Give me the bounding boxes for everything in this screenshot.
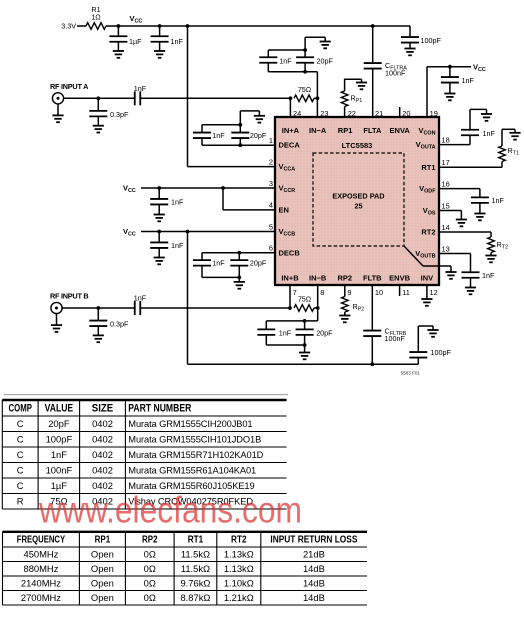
svg-text:75Ω: 75Ω xyxy=(298,295,312,304)
svg-text:14dB: 14dB xyxy=(303,577,325,588)
connector RF INPUT B xyxy=(51,302,62,313)
wire pin17 RT1 xyxy=(439,166,502,168)
resistor 75ohm input A xyxy=(294,85,314,102)
svg-text:DECB: DECB xyxy=(279,248,301,257)
svg-text:IN+B: IN+B xyxy=(281,274,299,283)
svg-text:IN+A: IN+A xyxy=(282,126,300,135)
wire EN branch xyxy=(223,188,275,210)
pin ENVB name xyxy=(389,274,410,283)
pin 3 number xyxy=(269,179,273,188)
ground INV xyxy=(421,299,432,306)
pin 11 number xyxy=(402,288,410,297)
capacitor 1uF bypass xyxy=(109,26,142,51)
svg-text:14: 14 xyxy=(442,223,450,232)
svg-text:1: 1 xyxy=(269,136,273,145)
svg-text:0.3pF: 0.3pF xyxy=(110,110,129,119)
capacitor CFLTRB 100nF xyxy=(363,285,406,364)
table2 grid xyxy=(3,532,368,606)
svg-text:1.13kΩ: 1.13kΩ xyxy=(224,563,254,574)
svg-text:1µF: 1µF xyxy=(129,37,142,46)
wire pin8 stub xyxy=(317,285,319,308)
svg-text:8: 8 xyxy=(320,288,324,297)
pin IN-A name xyxy=(309,126,327,135)
svg-text:EXPOSED PAD: EXPOSED PAD xyxy=(332,192,384,201)
pin 14 number xyxy=(442,223,450,232)
svg-text:13: 13 xyxy=(442,244,450,253)
node VCC junction 1uF xyxy=(117,24,121,28)
capacitor 20pF termination B xyxy=(296,321,334,345)
pin 16 number xyxy=(442,179,450,188)
svg-text:1Ω: 1Ω xyxy=(91,13,101,22)
pin VOUTB name xyxy=(415,249,435,260)
capacitor 1nF pin5 xyxy=(150,232,184,258)
svg-text:5583 F01: 5583 F01 xyxy=(401,371,421,376)
wire 75ohm to IN-A node xyxy=(314,97,317,99)
svg-text:RF INPUT A: RF INPUT A xyxy=(50,82,89,91)
svg-text:20pF: 20pF xyxy=(48,418,70,429)
wire DECB ground stem xyxy=(238,277,240,282)
svg-text:ENVB: ENVB xyxy=(389,274,410,283)
wire pin18 VOUTA xyxy=(439,144,470,146)
wire pin24 stub xyxy=(289,98,291,117)
resistor 75ohm input B xyxy=(294,295,314,312)
pin VOUTA name xyxy=(416,140,436,151)
pin RT2 name xyxy=(421,228,435,237)
ground exposed pad xyxy=(445,272,456,279)
svg-text:20pF: 20pF xyxy=(250,131,267,140)
capacitor 1nF VOUTB xyxy=(462,254,495,288)
svg-text:RP2: RP2 xyxy=(142,535,158,546)
pin 21 number xyxy=(375,109,383,118)
table1 grid xyxy=(2,400,286,509)
wire VCC top rail xyxy=(106,25,410,27)
capacitor 1nF pin19 xyxy=(441,67,475,94)
ground 100pF top xyxy=(404,49,415,56)
exposed pad dashed outline xyxy=(313,153,404,246)
pin 1 number xyxy=(269,136,273,145)
ground 1nF VODF xyxy=(474,214,485,221)
svg-text:0Ω: 0Ω xyxy=(144,548,156,559)
node EXPOSED PAD label xyxy=(332,192,384,211)
pin DECA name xyxy=(279,141,301,150)
node 20pF A bottom junction xyxy=(303,70,307,74)
capacitor 1nF bypass top-left xyxy=(151,26,184,51)
svg-text:0Ω: 0Ω xyxy=(144,577,156,588)
svg-text:VALUE: VALUE xyxy=(45,403,74,415)
pin DECB name xyxy=(279,248,301,257)
wire termination B bottom rail xyxy=(266,344,304,346)
svg-text:Murata GRM155R61A104KA01: Murata GRM155R61A104KA01 xyxy=(128,466,256,476)
svg-text:Open: Open xyxy=(91,577,114,588)
svg-text:9: 9 xyxy=(347,288,351,297)
connector RF INPUT A xyxy=(52,93,63,104)
svg-text:21: 21 xyxy=(375,109,383,118)
node pin19 1nF junction xyxy=(448,65,452,69)
ground 0.3pF input B xyxy=(93,335,104,342)
wire exposed pad diagonal xyxy=(404,246,423,266)
table1 data row 3 xyxy=(17,449,264,460)
ground 1nF pin3 xyxy=(154,215,165,222)
pin VCCA name xyxy=(279,162,296,173)
svg-text:2700MHz: 2700MHz xyxy=(21,592,61,603)
pin 9 number xyxy=(347,288,351,297)
svg-text:1nF: 1nF xyxy=(492,196,505,205)
svg-text:0Ω: 0Ω xyxy=(144,563,156,574)
svg-text:EN: EN xyxy=(279,205,289,214)
table1 data row 6 xyxy=(17,496,254,507)
node LTC5583 label xyxy=(342,141,373,150)
svg-text:1nF: 1nF xyxy=(51,449,67,460)
node CFLTRA junction xyxy=(371,24,375,28)
node IN-B junction xyxy=(316,306,320,310)
svg-text:2: 2 xyxy=(269,157,273,166)
svg-text:IN−B: IN−B xyxy=(309,274,327,283)
pin 17 number xyxy=(442,158,450,167)
ground 1nF top-left xyxy=(154,51,165,58)
node RF A 0.3pF junction xyxy=(96,96,100,100)
wire pin7 stub xyxy=(289,285,291,308)
ground RP1 xyxy=(356,83,367,90)
pin 7 number xyxy=(293,288,297,297)
svg-text:12: 12 xyxy=(430,288,438,297)
pin 15 number xyxy=(442,201,450,210)
ground RF INPUT A connector xyxy=(52,104,63,122)
wire RP1 to ground xyxy=(345,79,362,82)
node VCC label pin19 xyxy=(473,63,486,74)
pin 6 number xyxy=(269,244,273,253)
svg-text:0402: 0402 xyxy=(92,449,113,460)
svg-text:1.21kΩ: 1.21kΩ xyxy=(224,592,254,603)
table1 data row 2 xyxy=(17,434,261,445)
pin 13 number xyxy=(442,244,450,253)
svg-text:75Ω: 75Ω xyxy=(298,85,312,94)
table1 data row 4 xyxy=(17,465,256,476)
table1 data row 5 xyxy=(17,480,255,491)
svg-text:4: 4 xyxy=(269,201,273,210)
node RF INPUT B label xyxy=(50,292,88,301)
svg-text:IN−A: IN−A xyxy=(309,126,327,135)
svg-text:0.3pF: 0.3pF xyxy=(110,320,129,329)
table1 header row xyxy=(9,403,192,415)
svg-text:100nF: 100nF xyxy=(385,69,406,78)
wire termination A to ground xyxy=(305,37,325,50)
node VCC junction 1nF xyxy=(158,24,162,28)
capacitor 0.3pF input A xyxy=(89,98,129,125)
svg-text:11.5kΩ: 11.5kΩ xyxy=(181,563,210,574)
svg-text:14dB: 14dB xyxy=(303,592,325,603)
capacitor 1nF VODF xyxy=(471,189,505,214)
ground 1uF xyxy=(113,51,124,58)
pin IN+A name xyxy=(282,126,300,135)
svg-text:1nF: 1nF xyxy=(482,271,495,280)
node DECA 20pF top xyxy=(238,123,242,127)
capacitor 1nF DECB xyxy=(193,253,225,278)
wire IN-A node up to cap rail xyxy=(268,72,317,99)
pin 2 number xyxy=(269,157,273,166)
wire DECA to ground xyxy=(240,111,259,125)
capacitor 100pF bottom xyxy=(409,326,451,364)
node EN branch junction xyxy=(221,186,225,190)
wire 100pF bottom to ground xyxy=(418,326,433,330)
ground DECB xyxy=(234,282,245,289)
pin 18 number xyxy=(442,135,450,144)
wire pin1 DECA xyxy=(202,144,275,146)
resistor RT1 xyxy=(499,129,519,167)
pin FLTB name xyxy=(363,274,382,283)
capacitor 20pF DECA xyxy=(231,125,267,145)
wire pin19 to VCC xyxy=(427,67,471,117)
ground RT2 xyxy=(485,256,496,263)
wire bottom rail xyxy=(188,363,419,365)
node DECB 20pF bottom xyxy=(237,276,241,280)
svg-text:PART NUMBER: PART NUMBER xyxy=(128,403,191,415)
svg-text:22: 22 xyxy=(348,109,356,118)
node VCC-rail to pin2 junction xyxy=(186,24,190,28)
op-amp U1 LTC5583 body xyxy=(275,117,439,285)
svg-text:18: 18 xyxy=(442,135,450,144)
pin EN name xyxy=(279,205,289,214)
svg-text:RP2: RP2 xyxy=(338,274,353,283)
capacitor 1nF termination B xyxy=(257,321,291,345)
svg-text:100pF: 100pF xyxy=(421,36,442,45)
wire pin14 RT2 xyxy=(439,231,491,233)
pin VCCB name xyxy=(279,227,296,238)
node 20pF B bottom junction xyxy=(303,343,307,347)
wire VCC pin5 row xyxy=(141,231,275,233)
svg-text:450MHz: 450MHz xyxy=(23,548,58,559)
svg-text:8.87kΩ: 8.87kΩ xyxy=(180,592,210,603)
wire ENVB stub xyxy=(399,285,401,296)
ground termination A xyxy=(320,42,331,49)
node VCC label pin3 xyxy=(123,184,136,195)
node VCC label pin5 xyxy=(123,227,136,238)
svg-text:100pF: 100pF xyxy=(46,434,73,445)
capacitor 1nF DECA xyxy=(193,125,225,145)
pin 24 number xyxy=(293,109,301,118)
svg-text:20pF: 20pF xyxy=(250,259,267,268)
capacitor 1nF series input A xyxy=(134,84,147,105)
svg-text:FLTA: FLTA xyxy=(363,126,382,135)
svg-text:COMP: COMP xyxy=(9,403,32,415)
svg-text:R: R xyxy=(17,496,24,507)
wire termination B ground stem xyxy=(304,345,306,353)
wire pin6 DECB xyxy=(202,252,275,254)
capacitor 1nF pin3 xyxy=(150,188,184,215)
svg-text:9.76kΩ: 9.76kΩ xyxy=(180,577,210,588)
svg-text:17: 17 xyxy=(442,158,450,167)
svg-text:1nF: 1nF xyxy=(462,76,475,85)
pin IN-B name xyxy=(309,274,327,283)
ground RT1 xyxy=(509,133,520,140)
node RF B 0.3pF junction xyxy=(96,306,100,310)
svg-text:5: 5 xyxy=(269,222,273,231)
pin 23 number xyxy=(320,109,328,118)
node VCC down-rail junction xyxy=(186,230,190,234)
pin 4 number xyxy=(269,201,273,210)
svg-text:19: 19 xyxy=(430,109,438,118)
svg-text:20pF: 20pF xyxy=(317,56,334,65)
svg-text:3.3V: 3.3V xyxy=(61,22,76,31)
svg-text:0402: 0402 xyxy=(92,418,113,429)
svg-text:Open: Open xyxy=(91,548,114,559)
pin RP1 name xyxy=(338,126,353,135)
capacitor 1nF termination A xyxy=(259,50,292,72)
ground 1nF pin19 xyxy=(444,94,455,101)
svg-text:14dB: 14dB xyxy=(303,563,325,574)
wire pin13 VOUTB xyxy=(439,253,471,255)
wire pin23 stub xyxy=(316,98,318,117)
pin 5 number xyxy=(269,222,273,231)
ground RF INPUT B connector xyxy=(51,314,62,332)
node 20pF B top junction xyxy=(303,319,307,323)
svg-text:FLTB: FLTB xyxy=(363,274,382,283)
ground 0.3pF input A xyxy=(93,126,104,133)
svg-text:23: 23 xyxy=(320,109,328,118)
node IN+A junction xyxy=(289,96,293,100)
wire RF B to IN+B xyxy=(140,307,290,309)
node pin5 1nF junction xyxy=(157,230,161,234)
svg-text:DECA: DECA xyxy=(279,141,301,150)
svg-text:1nF: 1nF xyxy=(134,294,147,303)
svg-text:0402: 0402 xyxy=(92,434,113,445)
node DECA 20pF bottom xyxy=(238,143,242,147)
wire RF A to series cap xyxy=(64,97,135,99)
svg-text:RT1: RT1 xyxy=(421,163,435,172)
svg-text:SIZE: SIZE xyxy=(92,403,114,415)
svg-text:C: C xyxy=(17,418,24,429)
pin 19 number xyxy=(430,109,438,118)
ground DECA xyxy=(254,116,265,123)
ground 100pF bottom xyxy=(427,330,438,337)
svg-text:Murata GRM1555CIH200JB01: Murata GRM1555CIH200JB01 xyxy=(128,419,252,429)
pin RP2 name xyxy=(338,274,353,283)
svg-text:3: 3 xyxy=(269,179,273,188)
svg-text:1nF: 1nF xyxy=(134,84,147,93)
pin VOS name xyxy=(423,206,436,217)
pin VCCR name xyxy=(279,184,296,195)
table2 data row 2 xyxy=(23,563,324,574)
svg-text:10: 10 xyxy=(375,288,383,297)
svg-text:0402: 0402 xyxy=(92,465,113,476)
table1 gray rule xyxy=(4,394,288,396)
wire DECB bottom rail xyxy=(202,276,239,278)
resistor RT2 xyxy=(488,232,508,256)
svg-text:1nF: 1nF xyxy=(171,198,184,207)
svg-text:20: 20 xyxy=(402,109,410,118)
wire RT1 to ground xyxy=(502,129,515,133)
svg-text:RT1: RT1 xyxy=(188,535,204,546)
svg-text:Open: Open xyxy=(91,563,114,574)
node 3.3V supply label xyxy=(61,22,76,31)
capacitor 20pF DECB xyxy=(230,253,267,278)
capacitor 0.3pF input B xyxy=(89,308,129,335)
svg-text:ENVA: ENVA xyxy=(390,126,411,135)
svg-text:20pF: 20pF xyxy=(316,328,333,337)
svg-text:Murata GRM155R71H102KA01D: Murata GRM155R71H102KA01D xyxy=(128,450,263,460)
pin 10 number xyxy=(375,288,383,297)
ground termination B xyxy=(299,353,310,360)
capacitor CFLTRA 100nF xyxy=(364,26,408,117)
wire ENVA stub xyxy=(399,107,401,117)
svg-text:RT2: RT2 xyxy=(231,535,247,546)
svg-text:1nF: 1nF xyxy=(212,259,225,268)
svg-text:C: C xyxy=(17,480,24,491)
svg-text:1nF: 1nF xyxy=(171,241,184,250)
pin 20 number xyxy=(402,109,410,118)
svg-text:7: 7 xyxy=(293,288,297,297)
ground 1nF pin5 xyxy=(154,258,165,265)
node IN+B junction xyxy=(288,306,292,310)
wire pin15 VOS xyxy=(439,211,461,220)
svg-text:11: 11 xyxy=(402,288,410,297)
pin RT1 name xyxy=(421,163,435,172)
node RF INPUT A label xyxy=(50,82,89,91)
pin 12 number xyxy=(430,288,438,297)
svg-text:2140MHz: 2140MHz xyxy=(21,577,61,588)
pin VCON name xyxy=(419,126,436,137)
svg-text:100nF: 100nF xyxy=(46,465,73,476)
table1 data row 1 xyxy=(17,418,253,429)
svg-text:100pF: 100pF xyxy=(431,348,452,357)
svg-text:RT2: RT2 xyxy=(421,228,435,237)
node IN-A junction xyxy=(316,96,320,100)
wire IN-B node down to cap rail xyxy=(266,308,317,321)
ground RP2 xyxy=(339,316,350,323)
node figure label 5583 F01 xyxy=(401,371,421,376)
wire 3.3V to R1 xyxy=(77,25,86,27)
wire VOUTA cap to ground xyxy=(470,109,487,114)
node DECB 20pF top xyxy=(237,251,241,255)
svg-text:6: 6 xyxy=(269,244,273,253)
svg-text:880MHz: 880MHz xyxy=(23,563,58,574)
svg-text:11.5kΩ: 11.5kΩ xyxy=(181,548,210,559)
pin VODF name xyxy=(419,184,436,195)
resistor R1 xyxy=(86,5,106,29)
svg-text:INPUT RETURN LOSS: INPUT RETURN LOSS xyxy=(270,535,357,546)
table2 data row 3 xyxy=(21,577,325,588)
svg-text:LTC5583: LTC5583 xyxy=(342,141,373,150)
svg-text:C: C xyxy=(17,449,24,460)
pin IN+B name xyxy=(281,274,299,283)
node VCC label top-left xyxy=(130,14,143,25)
node pin3 1nF junction xyxy=(157,186,161,190)
wire exposed pad to ground xyxy=(423,266,451,272)
svg-text:C: C xyxy=(17,465,24,476)
svg-text:INV: INV xyxy=(421,274,434,283)
svg-text:25: 25 xyxy=(354,201,362,210)
wire pin16 VODF xyxy=(439,188,480,190)
capacitor 100pF top xyxy=(401,26,441,49)
wire VCC pin3 row xyxy=(141,187,275,189)
node 20pF A top junction xyxy=(303,48,307,52)
pin INV name xyxy=(421,274,434,283)
svg-text:Murata GRM1555CIH101JDO1B: Murata GRM1555CIH101JDO1B xyxy=(128,435,261,445)
ground VOUTA xyxy=(481,114,492,121)
svg-text:100nF: 100nF xyxy=(385,334,406,343)
resistor RP2 xyxy=(342,285,365,316)
svg-text:0Ω: 0Ω xyxy=(144,592,156,603)
capacitor 1nF VOUTA xyxy=(461,109,495,144)
pin 22 number xyxy=(348,109,356,118)
svg-text:1nF: 1nF xyxy=(171,37,184,46)
wire termination A top rail xyxy=(268,49,305,51)
svg-text:1nF: 1nF xyxy=(279,328,292,337)
table2 data row 4 xyxy=(21,592,325,603)
svg-text:RP1: RP1 xyxy=(95,535,111,546)
wire VCC rail down-left xyxy=(187,232,189,365)
wire VCC down to VCCA pin2 xyxy=(188,26,276,167)
svg-text:RP1: RP1 xyxy=(338,126,353,135)
